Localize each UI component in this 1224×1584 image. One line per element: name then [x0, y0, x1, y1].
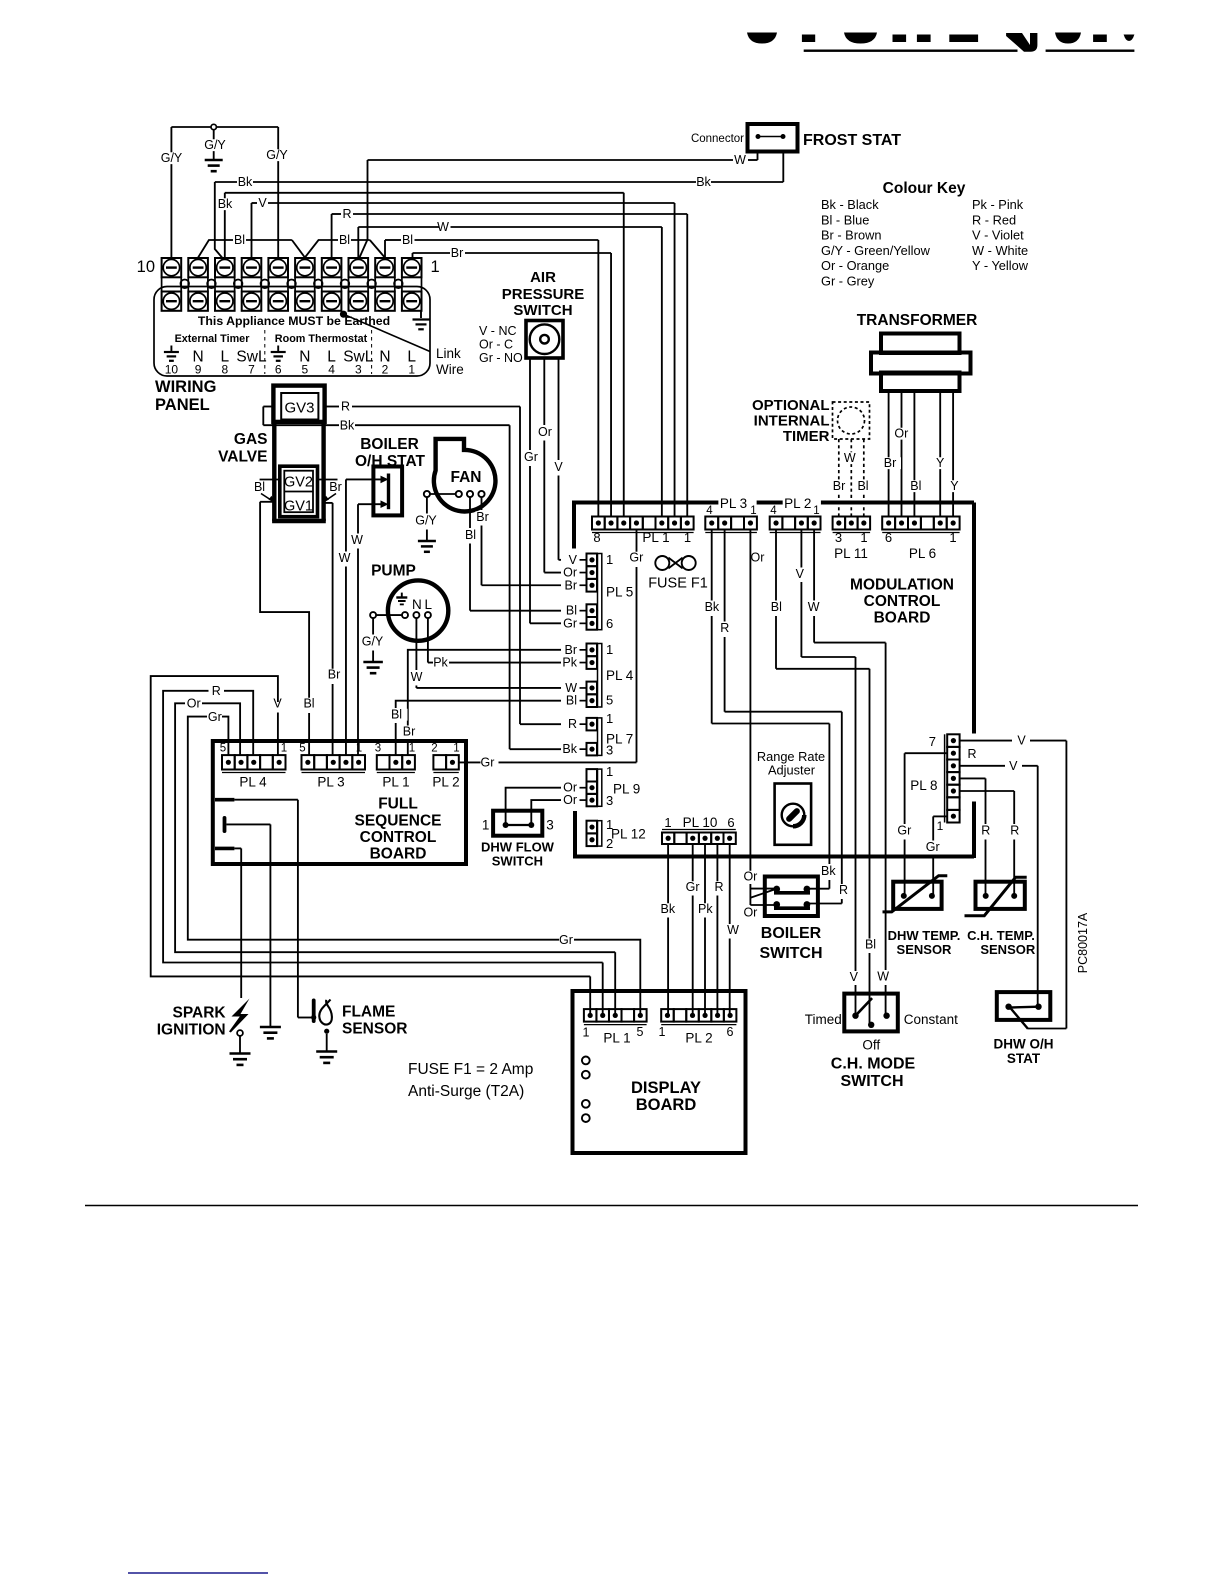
wire W OH stat top to FSCB PL3 pin4 [346, 478, 381, 480]
svg-text:Gr: Gr [481, 756, 495, 770]
svg-text:10: 10 [165, 363, 179, 377]
wire Bk GV3 to PL7 pin3 [262, 407, 264, 426]
connector PL2 full sequence board [431, 743, 459, 790]
svg-text:1: 1 [606, 552, 613, 567]
svg-text:SWITCH: SWITCH [759, 945, 822, 962]
wire Or DHW flow to PL9 pin3 [531, 800, 561, 823]
svg-text:1: 1 [453, 743, 459, 755]
wire V APS to PL5 pin1 [558, 358, 560, 460]
frost stat [691, 124, 901, 152]
svg-text:Pk: Pk [698, 902, 713, 916]
svg-text:CONTROL: CONTROL [360, 829, 437, 846]
svg-text:OPTIONAL: OPTIONAL [752, 397, 830, 414]
svg-text:R: R [212, 684, 221, 698]
electrode bar inside board [223, 816, 227, 833]
svg-text:L: L [425, 597, 433, 612]
wire W PL2 to CH mode switch [813, 530, 815, 601]
colour key [821, 180, 1029, 289]
svg-text:1: 1 [664, 815, 671, 830]
svg-text:10: 10 [137, 258, 155, 276]
svg-text:PL 9: PL 9 [613, 782, 640, 797]
svg-text:PUMP: PUMP [371, 563, 416, 580]
svg-text:Off: Off [862, 1038, 880, 1053]
svg-text:FULL: FULL [378, 796, 418, 813]
svg-text:Br: Br [328, 668, 341, 682]
svg-text:Bk - Black: Bk - Black [821, 197, 879, 212]
svg-text:AIR: AIR [530, 269, 556, 286]
svg-text:PL 4: PL 4 [239, 775, 267, 790]
svg-text:Adjuster: Adjuster [768, 763, 816, 778]
svg-text:MODULATION: MODULATION [850, 577, 954, 594]
svg-text:Bl: Bl [566, 694, 577, 708]
FSCB earth electrode [269, 824, 271, 1026]
svg-text:Or: Or [563, 793, 577, 807]
svg-text:PL 10: PL 10 [683, 815, 718, 830]
main earth [213, 130, 215, 159]
svg-text:Or: Or [187, 697, 201, 711]
svg-text:IGNITION: IGNITION [157, 1022, 226, 1039]
svg-text:Bk: Bk [340, 419, 355, 433]
logo (cropped brand mark at top) [747, 33, 1134, 52]
svg-text:8: 8 [221, 363, 228, 377]
svg-text:5: 5 [220, 743, 226, 755]
connector PL2 modulation board [770, 496, 821, 533]
svg-text:Bk: Bk [218, 197, 233, 211]
svg-text:Br: Br [833, 479, 846, 493]
svg-text:PL 11: PL 11 [834, 546, 868, 561]
wire Br fan to PL5 pin3 [481, 497, 483, 510]
svg-text:Or - C: Or - C [479, 338, 513, 352]
wire G/Y from terminal 10 [170, 127, 172, 258]
wire Bk PL10 to display PL2 [667, 844, 669, 904]
wire V terminal 7 to PL1 [251, 203, 253, 258]
svg-text:Gr - NO: Gr - NO [479, 351, 523, 365]
connector PL1 display board [583, 1009, 647, 1045]
full sequence control board [213, 741, 466, 864]
svg-text:PL 12: PL 12 [611, 827, 646, 842]
wire Bk PL3 pin4 to boiler switch [711, 530, 713, 601]
svg-text:C.H. TEMP.: C.H. TEMP. [967, 928, 1035, 943]
svg-text:Bk: Bk [661, 902, 676, 916]
svg-text:Bk: Bk [238, 175, 253, 189]
svg-text:G/Y: G/Y [161, 151, 183, 165]
svg-text:Or: Or [751, 551, 765, 565]
svg-text:DHW FLOW: DHW FLOW [481, 840, 555, 855]
wire V PL8 pin3 to DHW OH stat [960, 765, 1005, 767]
svg-text:SWITCH: SWITCH [492, 854, 543, 869]
wire Bl FSCB PL1 to PL4 pin5 [396, 701, 561, 708]
gas valve body [272, 422, 326, 521]
wire Br GV1 to FSCB PL3 [324, 502, 333, 504]
link wire junction [340, 311, 347, 318]
svg-text:V: V [850, 970, 859, 984]
wire Or display to FSCB PL4 pin4 [202, 703, 240, 755]
svg-text:1: 1 [606, 764, 613, 779]
transformer wires to PL6 [888, 391, 890, 517]
svg-text:PL 4: PL 4 [606, 668, 634, 683]
svg-text:W: W [844, 451, 856, 465]
wire V PL8 pin1 to DHW OH stat lever [960, 740, 1012, 742]
svg-text:Y - Yellow: Y - Yellow [972, 258, 1029, 273]
svg-text:W: W [437, 220, 449, 234]
svg-text:External Timer: External Timer [175, 333, 251, 345]
wire Bl terminal 2 to PL1 [384, 240, 386, 258]
svg-text:R: R [839, 883, 848, 897]
wire Bk terminal 8 to frost stat line [215, 182, 223, 259]
svg-text:Bl: Bl [254, 480, 265, 494]
footer mark [128, 1572, 268, 1574]
wire Gr PL8 pin7 to DHW temp sensor [933, 815, 947, 817]
svg-text:6: 6 [727, 1025, 734, 1039]
svg-text:1: 1 [281, 743, 287, 755]
air pressure switch [479, 321, 563, 366]
svg-text:6: 6 [885, 530, 892, 545]
wire Bl link terminal 9 to 5 [198, 240, 233, 258]
spark ignition terminal inside board [215, 847, 234, 851]
wire V PL2 to CH mode switch [800, 530, 802, 568]
CH mode switch [805, 994, 958, 1090]
wire R PL3 pin3 to boiler switch [724, 530, 726, 622]
DHW temp sensor [883, 876, 961, 957]
svg-text:PL 1: PL 1 [603, 1031, 630, 1046]
svg-text:BOILER: BOILER [360, 436, 419, 453]
svg-text:Bl: Bl [339, 233, 350, 247]
connector PL12 [587, 817, 646, 851]
DHW O/H stat [994, 992, 1054, 1066]
svg-text:Anti-Surge (T2A): Anti-Surge (T2A) [408, 1083, 524, 1100]
svg-text:Or: Or [894, 427, 908, 441]
wire W terminal 3 to PL1 [357, 227, 359, 258]
fan earth G/Y [426, 497, 428, 513]
svg-text:Gr: Gr [208, 710, 222, 724]
svg-text:Room Thermostat: Room Thermostat [275, 333, 368, 345]
fuse F1 [648, 556, 708, 592]
svg-text:Link: Link [436, 346, 461, 361]
connector PL1 full sequence board [375, 743, 415, 790]
svg-text:W: W [727, 923, 739, 937]
connector PL3 modulation board [705, 496, 757, 533]
flame sensor [311, 999, 407, 1063]
wire Gr PL8 pin2 to DHW temp sensor [905, 752, 948, 754]
wire W to frost stat [368, 159, 734, 161]
svg-text:PC80017A: PC80017A [1076, 912, 1090, 973]
flame sensor terminal inside board [215, 798, 234, 802]
svg-text:G/Y: G/Y [266, 148, 288, 162]
fuse rating note [408, 1061, 533, 1100]
svg-text:W: W [808, 600, 820, 614]
optional internal timer [752, 397, 870, 445]
connector PL1 modulation board [592, 517, 694, 546]
modulation control board caption [850, 577, 954, 627]
svg-text:STAT: STAT [1007, 1051, 1041, 1066]
svg-text:R - Red: R - Red [972, 212, 1016, 227]
svg-text:Bl: Bl [865, 938, 876, 952]
wire Or PL3 pin1 to boiler switch [749, 530, 751, 552]
svg-text:1: 1 [860, 530, 867, 545]
svg-text:W: W [339, 551, 351, 565]
svg-text:Bl: Bl [465, 528, 476, 542]
svg-text:Or - Orange: Or - Orange [821, 258, 889, 273]
svg-text:G/Y: G/Y [204, 138, 226, 152]
svg-text:PL 2: PL 2 [432, 775, 459, 790]
svg-text:PL 1: PL 1 [382, 775, 409, 790]
fan [424, 439, 496, 512]
display board mounting holes [582, 1057, 590, 1123]
svg-text:Timed: Timed [805, 1012, 842, 1027]
svg-text:5: 5 [637, 1025, 644, 1039]
boiler O/H stat [373, 467, 402, 516]
svg-text:8: 8 [593, 530, 600, 545]
svg-text:9: 9 [195, 363, 202, 377]
svg-text:PL 3: PL 3 [720, 496, 747, 511]
svg-text:VALVE: VALVE [218, 449, 267, 466]
svg-text:Br: Br [884, 456, 897, 470]
svg-text:FUSE F1: FUSE F1 [648, 576, 708, 592]
svg-text:Bk: Bk [821, 864, 836, 878]
svg-text:Bk: Bk [562, 742, 577, 756]
svg-text:1: 1 [813, 505, 819, 517]
svg-text:Bl: Bl [771, 600, 782, 614]
wire FSCB to spark ignition [240, 848, 242, 998]
svg-text:5: 5 [299, 743, 305, 755]
wire V display to FSCB PL4 pin1 [277, 713, 279, 756]
earth terminal circle [211, 124, 216, 129]
wire Or DHW flow to PL9 pin2 [506, 788, 561, 823]
connector PL9 [563, 764, 640, 808]
wire Br terminal 1 to PL1 [412, 253, 414, 258]
svg-text:1: 1 [684, 530, 691, 545]
svg-text:R: R [981, 824, 990, 838]
svg-text:Constant: Constant [904, 1012, 958, 1027]
wire Gr APS to PL5 pin6 [529, 358, 531, 450]
svg-text:W: W [734, 153, 746, 167]
wire R PL10 to display PL2 [716, 844, 718, 882]
svg-text:SEQUENCE: SEQUENCE [355, 813, 442, 830]
svg-text:V: V [554, 460, 563, 474]
svg-text:R: R [342, 207, 351, 221]
svg-text:BOARD: BOARD [874, 610, 931, 627]
svg-text:6: 6 [275, 363, 282, 377]
svg-text:Bl: Bl [391, 708, 402, 722]
svg-text:FAN: FAN [451, 469, 482, 486]
svg-text:SWITCH: SWITCH [840, 1073, 903, 1090]
connector PL6 [882, 517, 959, 562]
svg-text:Bl: Bl [303, 697, 314, 711]
svg-text:R: R [341, 400, 350, 414]
svg-text:SENSOR: SENSOR [980, 942, 1036, 957]
svg-text:1: 1 [659, 1025, 666, 1039]
svg-text:Gr: Gr [629, 551, 643, 565]
spark ignition [157, 999, 251, 1065]
svg-text:GV3: GV3 [284, 400, 314, 417]
pump earth G/Y [372, 618, 374, 634]
svg-text:3: 3 [546, 818, 554, 833]
DHW flow switch [481, 811, 555, 869]
svg-text:4: 4 [328, 363, 335, 377]
svg-text:BOARD: BOARD [370, 846, 427, 863]
connector PL11 [833, 517, 871, 562]
svg-text:Or: Or [743, 870, 757, 884]
connector PL4 full sequence board [220, 743, 287, 790]
wire R PL8 pin4 to CH temp sensor [960, 777, 986, 779]
svg-text:2: 2 [382, 363, 389, 377]
svg-text:N: N [412, 597, 422, 612]
svg-text:6: 6 [727, 815, 734, 830]
svg-text:W: W [411, 670, 423, 684]
svg-text:PRESSURE: PRESSURE [502, 286, 585, 303]
svg-text:PANEL: PANEL [155, 396, 210, 414]
svg-text:2: 2 [431, 743, 437, 755]
svg-text:C.H. MODE: C.H. MODE [831, 1056, 916, 1073]
svg-text:7: 7 [929, 734, 936, 749]
gas valve GV3 [273, 386, 324, 422]
svg-text:R: R [714, 880, 723, 894]
svg-text:Gr: Gr [897, 824, 911, 838]
modulation control board outline [573, 501, 974, 859]
svg-text:Y: Y [950, 479, 959, 493]
leader arrows to GV1 [261, 494, 273, 502]
svg-text:Br: Br [329, 480, 342, 494]
svg-text:V - Violet: V - Violet [972, 228, 1024, 243]
svg-text:G/Y: G/Y [362, 635, 384, 649]
connector PL3 full sequence board [299, 743, 365, 790]
connector PL10 [662, 815, 736, 844]
svg-text:Br: Br [403, 725, 416, 739]
wire Bl GV1 to FSCB PL3 [260, 501, 274, 503]
svg-text:PL 2: PL 2 [784, 496, 811, 511]
svg-text:Bl: Bl [857, 479, 868, 493]
wire R GV3 to PL7 pin1 [263, 406, 273, 408]
svg-text:Br - Brown: Br - Brown [821, 228, 881, 243]
svg-text:W - White: W - White [972, 243, 1028, 258]
svg-text:DHW O/H: DHW O/H [994, 1037, 1054, 1052]
svg-text:PL 5: PL 5 [606, 585, 633, 600]
transformer [857, 312, 978, 391]
svg-text:Wire: Wire [436, 362, 464, 377]
svg-text:Bl: Bl [910, 479, 921, 493]
svg-text:1: 1 [409, 743, 415, 755]
svg-text:BOILER: BOILER [761, 925, 822, 942]
svg-text:W: W [351, 533, 363, 547]
range rate adjuster [757, 749, 825, 845]
svg-text:GV2: GV2 [284, 475, 313, 491]
svg-text:Colour Key: Colour Key [883, 180, 966, 197]
svg-text:G/Y - Green/Yellow: G/Y - Green/Yellow [821, 243, 931, 258]
svg-text:FROST STAT: FROST STAT [803, 132, 901, 149]
svg-text:V: V [1017, 734, 1026, 748]
svg-text:3: 3 [375, 743, 381, 755]
wire Gr display to FSCB PL4 pin5 [222, 717, 228, 756]
svg-text:V: V [1009, 759, 1018, 773]
svg-text:W: W [877, 970, 889, 984]
svg-text:BOARD: BOARD [636, 1096, 697, 1114]
svg-text:Pk: Pk [433, 656, 448, 670]
svg-text:1: 1 [606, 642, 613, 657]
svg-text:1: 1 [949, 530, 956, 545]
svg-text:INTERNAL: INTERNAL [754, 413, 830, 430]
timer wires to PL11 [838, 439, 840, 517]
svg-text:R: R [1010, 824, 1019, 838]
svg-text:SPARK: SPARK [172, 1005, 226, 1022]
svg-text:Gr - Grey: Gr - Grey [821, 274, 875, 289]
svg-text:GV1: GV1 [284, 499, 313, 515]
svg-text:R: R [720, 621, 729, 635]
svg-text:5: 5 [606, 693, 613, 708]
earth symbol inside panel [420, 311, 422, 318]
svg-text:PL 7: PL 7 [606, 732, 633, 747]
svg-text:3: 3 [835, 530, 842, 545]
svg-text:1: 1 [583, 1026, 590, 1040]
svg-text:3: 3 [355, 363, 362, 377]
svg-text:FUSE F1 = 2 Amp: FUSE F1 = 2 Amp [408, 1061, 533, 1078]
svg-text:1: 1 [606, 711, 613, 726]
svg-text:5: 5 [302, 363, 309, 377]
svg-text:Or: Or [538, 425, 552, 439]
svg-text:Br: Br [565, 578, 578, 592]
wire Br FSCB PL1 to PL4 pin1 [408, 650, 561, 726]
connector PL5 [563, 552, 633, 631]
wire Bl fan to PL5 pin5 [469, 497, 471, 528]
svg-text:4: 4 [770, 505, 777, 517]
svg-text:GAS: GAS [234, 431, 268, 448]
CH temp sensor [965, 877, 1036, 957]
svg-text:1: 1 [937, 819, 944, 833]
svg-text:R: R [967, 747, 976, 761]
pump [370, 563, 448, 641]
svg-text:CONTROL: CONTROL [864, 593, 941, 610]
svg-text:FLAME: FLAME [342, 1004, 395, 1021]
wire Pk PL10 to display PL2 [704, 844, 706, 904]
svg-text:PL 1: PL 1 [642, 530, 669, 545]
svg-text:1: 1 [750, 505, 756, 517]
connector PL7 [562, 711, 633, 758]
display board [573, 991, 746, 1153]
svg-text:4: 4 [706, 505, 713, 517]
wire Or APS to PL5 pin2 [543, 358, 545, 425]
footer rule [85, 1205, 1138, 1207]
svg-text:1: 1 [356, 743, 362, 755]
svg-text:Pk: Pk [562, 656, 577, 670]
wire FSCB to flame sensor [297, 800, 299, 1018]
wire G/Y to terminal 6 [216, 126, 278, 128]
GV2 pin stubs [260, 479, 280, 481]
svg-text:1: 1 [408, 363, 415, 377]
panel terminal labels [164, 330, 416, 377]
boiler switch [759, 877, 822, 963]
svg-text:Pk - Pink: Pk - Pink [972, 197, 1024, 212]
svg-text:Y: Y [936, 456, 945, 470]
svg-text:R: R [568, 717, 577, 731]
svg-text:Connector: Connector [691, 133, 744, 145]
svg-text:Br: Br [476, 510, 489, 524]
svg-text:Gr: Gr [926, 840, 940, 854]
svg-text:Bl: Bl [234, 233, 245, 247]
svg-text:Gr: Gr [524, 450, 538, 464]
connector PL4 [562, 642, 633, 708]
svg-text:V - NC: V - NC [479, 324, 517, 338]
svg-text:TIMER: TIMER [783, 428, 830, 445]
wire Pk pump L to PL4 pin2 [427, 618, 429, 662]
svg-text:SWITCH: SWITCH [513, 302, 572, 319]
wire Bl link terminal 5 to 2 [305, 240, 338, 258]
svg-text:V: V [258, 196, 267, 210]
svg-text:Bk: Bk [705, 600, 720, 614]
svg-text:DISPLAY: DISPLAY [631, 1079, 701, 1097]
svg-text:TRANSFORMER: TRANSFORMER [857, 312, 978, 329]
connector PL8 [910, 734, 959, 833]
svg-text:PL 6: PL 6 [909, 546, 936, 561]
svg-text:1: 1 [431, 258, 440, 276]
